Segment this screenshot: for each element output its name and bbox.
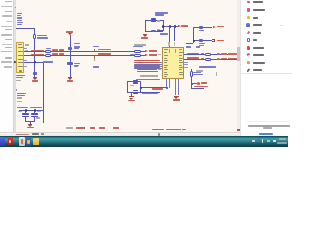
tray icons	[252, 140, 255, 143]
power flag	[213, 26, 216, 28]
cursor readout GND	[66, 127, 73, 129]
wire usb row A	[184, 53, 237, 56]
net label GND06	[52, 49, 58, 50]
menu row 4	[247, 31, 251, 35]
wire	[33, 111, 36, 114]
ground AGND	[143, 33, 148, 36]
wire	[25, 120, 35, 123]
net label A.SCL.S	[98, 49, 111, 51]
label PB10	[160, 33, 168, 34]
resistor R8	[205, 53, 211, 56]
menu row 9	[247, 68, 251, 72]
junction	[169, 25, 171, 27]
power flag	[217, 58, 220, 60]
wire osc	[140, 86, 166, 89]
label TM2	[130, 85, 134, 86]
ground AGND	[174, 95, 179, 98]
junction	[25, 109, 27, 111]
value label C8	[155, 12, 168, 13]
value label R1	[37, 35, 47, 36]
net label GND07	[52, 53, 58, 54]
pin labels U1 left	[164, 49, 168, 50]
wire usb conn	[192, 27, 195, 43]
label OSC_OUT	[142, 93, 158, 94]
net label AVPL	[152, 88, 163, 89]
pin number 10	[25, 50, 28, 51]
blue link	[259, 133, 273, 135]
info text line1	[248, 125, 290, 127]
net label box	[67, 62, 73, 65]
wire	[190, 77, 193, 84]
node stack labels top-left	[17, 13, 22, 14]
wire	[16, 27, 36, 30]
menu row 2	[247, 16, 251, 20]
power flag	[145, 54, 148, 56]
junction	[191, 83, 193, 85]
status bar	[0, 132, 240, 138]
label below J1	[16, 75, 25, 76]
pin labels U1 right	[179, 49, 183, 50]
pin name labels J1	[18, 44, 22, 45]
net label A.SCL.F	[98, 53, 111, 55]
junction	[166, 87, 168, 89]
menu bottom divider	[241, 72, 292, 75]
pin stub	[184, 66, 188, 69]
wire	[33, 63, 36, 78]
net label small	[201, 53, 204, 54]
menu row 7	[247, 53, 251, 57]
resistor R3	[45, 54, 50, 57]
ground AGND	[28, 123, 33, 126]
info divider	[247, 120, 291, 123]
power flag VDD33	[66, 31, 73, 32]
value label caps	[43, 61, 53, 62]
op-amp U1 main IC	[162, 47, 184, 79]
pin stub U1 bottom	[168, 79, 171, 88]
schematic canvas	[16, 0, 237, 132]
wire	[24, 117, 27, 121]
junction	[193, 40, 195, 42]
label A.B18	[199, 66, 216, 68]
menu row 6	[247, 46, 251, 50]
net label box	[151, 30, 156, 33]
wire	[203, 26, 212, 29]
wire	[69, 35, 72, 77]
wire	[186, 42, 193, 45]
left panel divider bar	[13, 0, 17, 132]
wire	[33, 39, 36, 62]
net label box	[199, 39, 204, 42]
pin stub	[184, 61, 188, 64]
value label C10	[17, 107, 28, 108]
label SWD	[134, 44, 146, 46]
net label USC1.3A	[187, 53, 200, 54]
menu row 0 (disabled)	[247, 1, 251, 4]
wire bus A y51	[24, 50, 145, 53]
power flag	[217, 53, 220, 55]
capacitor C16	[133, 90, 137, 91]
pin stub	[24, 47, 27, 50]
pin stub	[24, 65, 27, 68]
wire AIO SW A	[133, 46, 143, 47]
testpoint TP2	[93, 46, 99, 48]
capacitor C15	[133, 80, 137, 81]
info text line2	[263, 127, 272, 128]
selection diamond	[14, 61, 17, 64]
net label USC1.5A	[187, 57, 200, 58]
capacitor C10	[22, 113, 29, 114]
label MODE	[140, 75, 158, 77]
freq label	[36, 117, 40, 118]
pin stub	[184, 63, 188, 66]
menu row 3	[246, 23, 250, 27]
junction	[162, 25, 164, 27]
net rows into U1	[134, 60, 160, 61]
net label small	[201, 58, 204, 59]
taskbar	[0, 136, 288, 146]
wire	[24, 61, 44, 64]
node marker red	[15, 7, 16, 8]
wire	[191, 82, 197, 85]
decoupling cap loop	[144, 20, 147, 32]
wire	[203, 39, 212, 42]
wire	[173, 26, 176, 42]
wire stub left	[162, 26, 165, 30]
misc mark	[216, 72, 217, 76]
connector J1	[16, 42, 24, 74]
wire	[190, 69, 193, 72]
junction	[34, 61, 36, 63]
no-connect mark	[168, 42, 170, 47]
cursor mark	[16, 89, 17, 91]
pin stub	[24, 59, 27, 62]
resistor R4	[134, 50, 141, 53]
pin stub U1 bottom	[174, 79, 177, 96]
junction	[174, 25, 176, 27]
wire usb row B	[184, 58, 237, 61]
resistor R1	[33, 34, 36, 39]
junction	[34, 109, 36, 111]
wire bus B y55	[24, 54, 145, 57]
wire	[24, 111, 27, 114]
resistor R6	[190, 71, 193, 77]
no-connect mark	[174, 42, 176, 47]
value label C13	[30, 107, 42, 108]
net label box GND	[33, 72, 37, 75]
power flag VDD	[178, 25, 181, 27]
labels bottom left	[17, 93, 26, 94]
canvas scrollbar	[237, 0, 240, 132]
ground flag	[212, 39, 215, 42]
crystal circuit	[126, 81, 129, 92]
ground	[33, 76, 38, 79]
pin stub U1 bottom	[177, 79, 180, 96]
label USB	[196, 46, 201, 48]
net label AIO1	[31, 50, 45, 51]
designator label	[25, 44, 29, 46]
capacitor C13	[31, 113, 38, 114]
testpoint	[197, 82, 200, 85]
label VBUS	[186, 46, 191, 47]
wire long vertical	[42, 62, 45, 124]
resistor R5	[134, 54, 141, 57]
net label out	[194, 86, 208, 88]
wire	[19, 109, 43, 112]
wire	[33, 28, 36, 34]
power flag	[145, 50, 148, 52]
wire	[190, 83, 193, 88]
menu row 5	[247, 38, 250, 42]
value label R2	[46, 48, 51, 49]
designator C10	[18, 111, 22, 112]
wire	[33, 117, 36, 121]
pin stub U1 bottom	[165, 79, 168, 88]
ground AGND	[68, 76, 73, 79]
menu row 8	[247, 61, 251, 64]
menu row 1	[247, 8, 251, 12]
value label R6	[193, 72, 201, 73]
wire vdd rail	[163, 25, 178, 28]
capacitor C8	[151, 18, 156, 19]
node label AT1	[17, 24, 23, 26]
wire	[168, 26, 171, 47]
wire	[130, 92, 133, 97]
testpoint TP4	[94, 56, 96, 58]
net label box	[68, 47, 73, 50]
label OSC_IN	[136, 79, 160, 80]
pin number marks U1 top	[169, 49, 170, 53]
right white panel (context menu area)	[240, 0, 320, 136]
resistor R9	[205, 58, 211, 61]
designator C13	[37, 111, 41, 112]
junction	[140, 87, 142, 89]
ground AGND	[129, 95, 133, 98]
net label box	[199, 26, 204, 29]
readout red	[76, 127, 84, 129]
pin number text	[158, 54, 161, 55]
label AIO	[130, 54, 134, 55]
net label AIO2	[31, 54, 45, 55]
wire	[29, 121, 32, 124]
clock	[279, 138, 287, 140]
resistor R2	[45, 50, 50, 53]
left file-list panel	[0, 0, 13, 132]
